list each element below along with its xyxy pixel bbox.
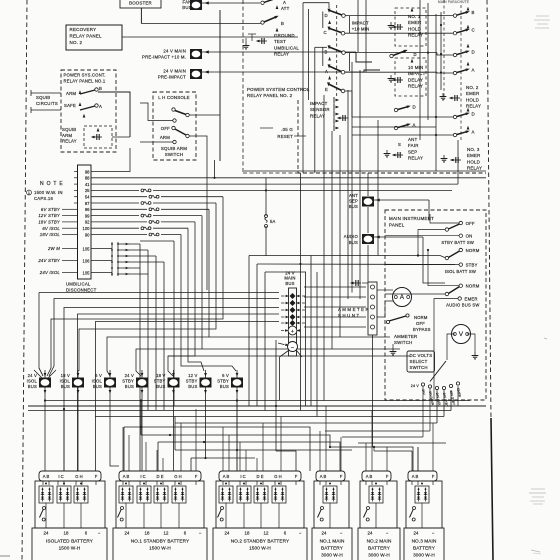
svg-text:12V STBY: 12V STBY [38,213,61,218]
diode matrix for 105/106 lines [91,248,112,250]
svg-text:STBY BATT SW: STBY BATT SW [441,240,474,245]
svg-text:FAIR: FAIR [408,143,419,148]
panel switch wires [418,230,445,256]
voltmeter left wire [447,334,455,360]
ammeter meter A [393,288,412,307]
mid bundle h2 [49,299,279,377]
svg-text:NO.2 MAIN: NO.2 MAIN [367,539,392,544]
left feed corners to relay column [303,3,329,8]
svg-text:G H: G H [75,474,82,479]
svg-text:ISOL: ISOL [60,379,71,384]
svg-text:TEST: TEST [274,39,286,44]
svg-text:A: A [283,0,286,5]
svg-text:ANT: ANT [349,193,358,198]
fused wire 3 [91,202,139,204]
fused wire 6 [91,221,147,223]
svg-text:24 V MAIN: 24 V MAIN [163,49,186,54]
svg-text:RELAY PANEL: RELAY PANEL [70,33,103,38]
svg-text:C: C [324,30,327,35]
svg-text:BUS: BUS [93,384,102,389]
svg-text:25: 25 [85,188,90,193]
svg-text:EMER: EMER [408,20,422,25]
svg-text:S: S [398,142,401,147]
switch STBY BATT SW OFF/ON [459,221,462,224]
svg-text:OFF: OFF [161,126,170,131]
margin smudge mid right [544,338,547,339]
svg-text:STBY: STBY [186,379,198,384]
svg-text:A: A [400,294,405,301]
routing h y255.5 [249,256,445,258]
ant sep bus wire [374,199,429,201]
contact left of 10min relay [390,54,393,57]
svg-text:HOLD: HOLD [466,97,479,102]
svg-text:STBY: STBY [154,379,166,384]
svg-text:2W M: 2W M [47,246,60,251]
svg-text:GROUND: GROUND [274,33,295,38]
svg-text:−: − [386,531,389,536]
svg-text:BUS: BUS [125,384,134,389]
svg-text:D E: D E [257,474,264,479]
svg-text:BUS: BUS [349,240,358,245]
wire E to ant fair sep [345,90,352,92]
svg-text:BUS: BUS [61,384,70,389]
svg-text:IMPACT: IMPACT [310,101,328,106]
svg-text:OFF: OFF [416,321,425,326]
svg-text:L H CONSOLE: L H CONSOLE [158,95,190,100]
ammeter shunt strip [368,282,377,335]
svg-text:−: − [432,531,435,536]
svg-text:105: 105 [83,270,91,275]
svg-text:SAFE: SAFE [64,103,76,108]
svg-text:98: 98 [85,169,90,174]
distribution corners right up to panel [450,390,452,411]
svg-text:6 V: 6 V [95,373,102,378]
impact sensor diode stack [335,99,339,102]
svg-text:RELAY: RELAY [62,139,77,144]
battery NO.1 STANDBY BATTERY 1500 W-H [119,471,201,481]
wire 88 long [91,177,486,179]
lower right contacts D A [453,115,456,118]
svg-text:HOLD: HOLD [467,159,480,164]
svg-text:A B: A B [223,474,230,479]
voltmeter meter V [452,325,471,344]
svg-text:B: B [471,10,474,15]
bus bottom extensions [77,401,79,472]
mid bundle h7 [202,348,400,350]
wire 98 [91,148,130,172]
svg-text:A: A [471,67,474,72]
svg-text:24 V MAIN: 24 V MAIN [163,69,186,74]
svg-text:88: 88 [85,176,90,181]
fused wire 2 [91,196,147,198]
svg-text:EMER: EMER [467,153,481,158]
vertical x441 with dots [440,12,442,90]
routing h y272 [265,272,306,406]
svg-text:E: E [325,87,328,92]
svg-text:RELAY: RELAY [467,166,482,171]
svg-text:NORM: NORM [414,315,428,320]
svg-text:RECOVERY: RECOVERY [70,27,97,32]
svg-text:POWER SYSTEM CONTROL: POWER SYSTEM CONTROL [247,87,310,92]
fused wire 8 [91,234,147,236]
svg-text:BYPASS: BYPASS [413,327,431,332]
wire 41 long [91,183,458,185]
svg-text:92: 92 [85,220,90,225]
svg-text:F: F [195,474,198,479]
svg-text:ATT: ATT [281,6,290,11]
contact top A [261,1,264,4]
svg-text:24V STBY: 24V STBY [37,258,61,263]
switch ISOL BATT SW NORM/STBY [459,248,462,251]
svg-text:RESET: RESET [277,134,293,139]
fused wire 4 [91,208,147,210]
svg-text:RELAY: RELAY [408,156,423,161]
svg-text:−: − [291,345,295,351]
ground below ammeter switch [392,344,394,348]
svg-text:S H U N T: S H U N T [338,313,359,318]
console wires right [189,114,220,116]
svg-text:18V ISOL: 18V ISOL [40,232,61,237]
svg-text:SQUIB: SQUIB [62,127,76,132]
step corner verticals left [123,427,125,471]
dashed big relay panel no2 box [298,100,486,173]
routing h y264 [257,263,455,266]
svg-text:CAPS.16: CAPS.16 [34,196,53,201]
svg-text:SEP: SEP [408,149,417,154]
svg-text:BUS: BUS [349,204,358,209]
svg-text:A: A [471,129,474,134]
margin smudge lower right 1 [531,488,545,490]
margin smudge lower right 2 [531,550,540,552]
wire shunt to ammeter [377,289,393,291]
coil at top of shunt [353,282,361,284]
wire pre-impact+10 bus [202,51,356,53]
right distribution h y447 [330,447,413,471]
fused wire 25 long [91,189,139,191]
svg-text:A B: A B [412,474,419,479]
svg-text:EMER: EMER [465,297,478,302]
svg-text:BUS: BUS [285,281,294,286]
squib circuit leads [31,92,61,94]
dashed verticals right column [443,0,445,100]
svg-text:I C: I C [58,474,63,479]
battery feed verticals B3 [222,427,224,471]
svg-text:106: 106 [83,258,91,263]
svg-text:PRE-IMPACT +10 M.: PRE-IMPACT +10 M. [142,55,186,60]
mid bundle h3 [64,308,279,472]
battery feed verticals B2 [122,427,124,471]
svg-text:NORM: NORM [466,284,480,289]
svg-text:BUS: BUS [188,384,197,389]
svg-text:RELAY PANEL NO. 2: RELAY PANEL NO. 2 [247,93,293,98]
svg-text:24V ISOL: 24V ISOL [39,270,61,275]
mid bundle h6 [209,336,390,338]
strip contact diamonds [290,293,296,299]
svg-text:+10 MIN: +10 MIN [352,27,370,32]
step h y442 [158,442,340,471]
svg-text:SWITCH: SWITCH [165,152,184,157]
svg-text:18: 18 [145,531,150,536]
svg-text:D E: D E [157,474,164,479]
svg-text:V: V [459,331,464,338]
plus node [288,326,297,335]
svg-text:EMER: EMER [466,91,480,96]
right page edge line (solid, lower) [491,418,493,560]
svg-text:24: 24 [225,531,230,536]
distribution h y416.5 [95,416,444,418]
svg-text:AUDIO BUS SW: AUDIO BUS SW [446,303,479,308]
corner drop 6 to 12V STBY bus [188,228,204,371]
selector lever [430,361,446,382]
corner drop 7 to 6V STBY bus [181,235,236,372]
svg-text:D: D [412,104,415,109]
svg-text:100: 100 [83,226,91,231]
svg-text:A: A [325,69,328,74]
svg-text:POWER SYS.CONT.: POWER SYS.CONT. [64,73,106,78]
svg-text:SEP: SEP [349,199,358,204]
wires left of contacts [141,23,261,25]
voltmeter ground [467,334,475,352]
svg-text:ARM: ARM [160,135,170,140]
mid bundle h1 [39,292,279,294]
dashed panel POWER SYS.CONT. RELAY PANEL NO.1 [61,70,116,152]
svg-text:MAIN PARACHUTE: MAIN PARACHUTE [438,0,469,4]
wires top right area [357,0,359,52]
svg-text:BATTERY: BATTERY [321,546,344,551]
svg-text:F: F [386,474,389,479]
svg-text:ON: ON [466,234,473,239]
svg-text:N O T E: N O T E [40,181,63,187]
corner drop 3 to 6V ISOL bus [107,209,209,376]
mid bundle h5 [96,322,280,472]
svg-text:F: F [432,474,435,479]
step h y458 [191,457,255,459]
selector contacts [421,383,424,386]
svg-text:−: − [199,531,202,536]
center vertical bundle from relay panel [323,95,325,401]
corner drop 4 to 24V STBY bus [136,216,202,376]
box BOOSTER [120,0,161,8]
battery ISOLATED BATTERY 1500 W-H [39,471,101,481]
svg-text:+: + [291,329,294,335]
svg-text:ISOL BATT SW: ISOL BATT SW [445,269,476,274]
console wire upper left [140,103,173,121]
svg-text:NO.3 MAIN: NO.3 MAIN [412,539,437,544]
dashed vertical relay column [336,5,338,96]
svg-text:18: 18 [64,531,69,536]
shunt bottom drop [372,335,374,447]
step h y427 [124,427,310,471]
distribution h y410.5 [28,410,451,412]
svg-text:NO.2 STANDBY BATTERY: NO.2 STANDBY BATTERY [231,539,290,544]
fuse 5A vertical [265,215,268,218]
fused wire 5 [91,215,139,217]
corner drop 5 to 18V STBY bus [168,222,195,376]
svg-text:−: − [340,531,343,536]
svg-text:24: 24 [44,531,49,536]
svg-text:12: 12 [264,531,269,536]
right distribution h y437 [342,436,423,438]
svg-text:41: 41 [85,182,90,187]
svg-text:SENSOR: SENSOR [310,107,330,112]
mid bundle h8 [168,355,410,357]
svg-text:−: − [98,531,101,536]
svg-text:NORM: NORM [466,248,480,253]
fused wire 7 [91,227,139,229]
svg-text:B: B [325,50,328,55]
minus node [288,342,298,352]
svg-text:SWITCH: SWITCH [394,340,413,345]
step h y450 [175,449,352,451]
svg-text:A B: A B [320,474,327,479]
svg-text:ISOL: ISOL [92,379,103,384]
svg-text:ARM: ARM [62,133,72,138]
console switch upper [172,108,175,111]
box RECOVERY RELAY PANEL NO. 2 [66,25,122,50]
svg-text:RELAY: RELAY [466,104,481,109]
svg-text:24 V: 24 V [411,384,420,388]
audio bus wire [374,236,423,238]
svg-text:18 V: 18 V [156,373,165,378]
svg-text:F: F [340,474,343,479]
distribution h y406 [28,405,486,407]
margin smudge top right [536,15,549,17]
svg-text:24: 24 [414,531,419,536]
relay pair B-A box [322,48,324,67]
minus node diagonals [280,351,289,358]
right distribution h y451 [275,340,277,451]
svg-text:24: 24 [125,531,130,536]
svg-text:18V STBY: 18V STBY [38,220,61,225]
svg-text:MAIN INSTRUMENT: MAIN INSTRUMENT [389,216,434,221]
svg-text:UMBILICAL: UMBILICAL [66,282,91,287]
svg-text:UMBILICAL: UMBILICAL [274,45,299,50]
svg-text:OFF: OFF [466,221,475,226]
svg-text:A B: A B [43,474,50,479]
svg-text:99: 99 [85,213,90,218]
svg-text:DC VOLTS: DC VOLTS [410,353,433,358]
wire from booster box [140,8,142,24]
dashed panel MAIN INSTRUMENT PANEL [385,210,486,400]
svg-text:BOOSTER: BOOSTER [129,1,152,6]
svg-text:1500 W-H: 1500 W-H [249,546,271,551]
relay panel cross wires [352,126,436,128]
svg-text:5A: 5A [270,219,276,224]
svg-text:1: 1 [28,191,30,195]
svg-text:G H: G H [174,474,181,479]
contact top B [261,21,264,24]
bottom left page mark [0,555,10,557]
switch AUDIO BUS SW NORM/EMER [459,284,462,287]
svg-text:A: A [99,104,102,109]
svg-text:STBY: STBY [466,263,478,268]
svg-text:A B: A B [366,474,373,479]
svg-text:1500 W-H: 1500 W-H [59,546,81,551]
svg-text:90: 90 [85,232,90,237]
svg-text:F: F [295,474,298,479]
dashed panel L H CONSOLE [153,92,196,160]
step h y435 [141,435,330,447]
svg-text:1500 W.W. IN: 1500 W.W. IN [34,190,63,195]
svg-text:HOLD: HOLD [408,26,421,31]
svg-text:3000 W-H: 3000 W-H [413,553,435,558]
svg-text:RELAY: RELAY [310,113,325,118]
svg-text:NO. 2: NO. 2 [70,40,83,45]
routing verticals center [300,173,302,411]
relay pair D-C box [322,12,324,29]
svg-text:3000 W-H: 3000 W-H [368,553,390,558]
right distribution h y431 [325,430,430,432]
wire fan bus to relay A [202,2,260,4]
svg-text:A B: A B [123,474,130,479]
svg-text:BUS: BUS [220,384,229,389]
svg-text:BUS: BUS [156,384,165,389]
svg-text:NO. 2: NO. 2 [466,85,479,90]
svg-text:BATTERY: BATTERY [368,546,391,551]
battery NO.3 MAIN BATTERY 3000 W-H [408,471,437,481]
svg-text:NO. 3: NO. 3 [467,147,480,152]
svg-text:18: 18 [245,531,250,536]
svg-text:DELAY: DELAY [408,77,423,82]
svg-text:STBY: STBY [122,379,134,384]
svg-text:24 V: 24 V [125,373,134,378]
dashed box no1 emer [395,8,426,46]
svg-text:F: F [95,474,98,479]
dc volts select switch box [407,351,435,372]
svg-text:DISCONNECT: DISCONNECT [66,287,97,292]
svg-text:NO. 1: NO. 1 [408,14,421,19]
svg-text:ISOLATED BATTERY: ISOLATED BATTERY [46,539,94,544]
svg-text:B: B [281,21,284,26]
svg-text:SQUIB ARM: SQUIB ARM [161,146,187,151]
left page border (dash-dot) [22,0,27,560]
svg-text:SELECT: SELECT [410,359,428,364]
matrix output verticals [139,244,141,471]
svg-text:AUDIO: AUDIO [344,234,359,239]
svg-text:G H: G H [274,474,281,479]
distribution h y423 [175,422,437,424]
right page border (dashed) [487,0,491,418]
svg-text:PANEL: PANEL [389,222,405,227]
svg-text:SQUIB: SQUIB [36,95,50,100]
wire squib arm relay to right [112,136,130,138]
svg-text:RELAY: RELAY [274,52,289,57]
svg-text:SWITCH: SWITCH [410,365,428,370]
slant feeds into 24V ISOL bus [39,368,43,376]
selector drop verticals from panel [457,386,459,406]
right contacts column B C D A [453,14,456,17]
svg-text:CIRCUITS: CIRCUITS [36,101,58,106]
svg-text:1500 W-H: 1500 W-H [149,546,171,551]
svg-text:D: D [471,111,474,116]
svg-text:BATTERY: BATTERY [413,546,436,551]
shunt feed wires [304,286,366,288]
svg-text:STBY: STBY [217,379,229,384]
battery feed verticals B1 [44,401,46,472]
battery NO.2 MAIN BATTERY 3000 W-H [362,471,391,481]
svg-text:24 V: 24 V [28,373,37,378]
svg-text:NO.1 STANDBY BATTERY: NO.1 STANDBY BATTERY [131,539,190,544]
svg-text:ANT: ANT [408,137,417,142]
svg-text:3000 W-H: 3000 W-H [321,553,343,558]
junction dots distribution [140,426,142,428]
battery feed verticals mains [319,431,321,471]
svg-text:−: − [299,531,302,536]
svg-text:ARM: ARM [66,91,76,96]
corner drop 1 to 24V ISOL bus [47,197,223,376]
svg-text:I C: I C [240,474,245,479]
svg-text:24: 24 [368,531,373,536]
